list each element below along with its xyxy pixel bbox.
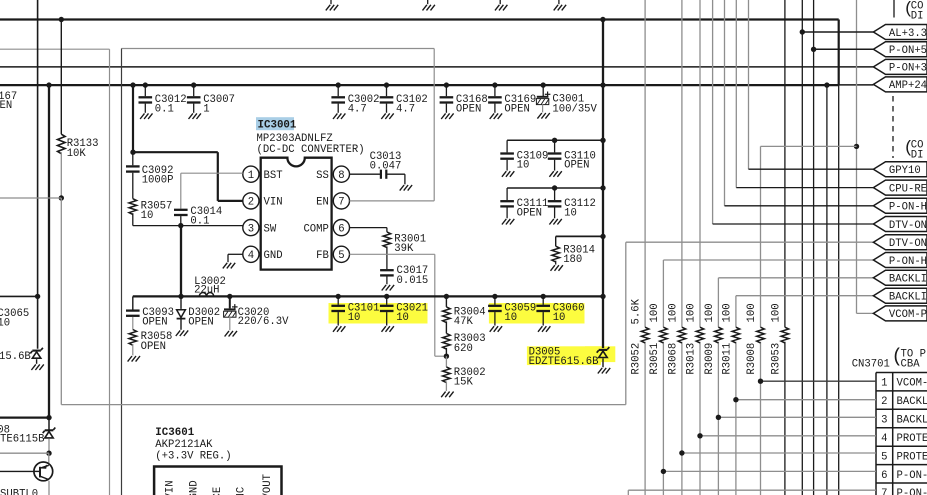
svg-text:EDZTE615.6B: EDZTE615.6B (529, 356, 599, 368)
node dot row4 (697, 433, 702, 438)
svg-text:5: 5 (881, 451, 887, 463)
wire EN vertical (433, 49, 435, 201)
svg-text:AL+3.3V: AL+3.3V (889, 28, 927, 40)
capacitor C3168 OPEN (440, 85, 454, 113)
capacitor C3093 OPEN (132, 296, 134, 309)
wire C3065 y=296 (0, 295, 38, 297)
svg-text:100/35V: 100/35V (552, 103, 597, 115)
svg-text:VCOM-PR: VCOM-PR (889, 309, 927, 321)
svg-text:R3009: R3009 (704, 343, 716, 375)
svg-text:IC3001: IC3001 (258, 120, 297, 132)
wire R3014 link (556, 235, 603, 237)
resistor R3008 100 (757, 327, 765, 343)
capacitor C3017 0.015 (380, 269, 394, 271)
svg-text:GND: GND (188, 480, 200, 495)
pin 8 SS (333, 166, 349, 182)
net flag P-ON-HD (873, 198, 927, 213)
wire P-ON+5 vertical x=813.6 (813, 0, 815, 495)
svg-text:OPEN: OPEN (456, 103, 481, 115)
net flag P-ON+5V (873, 42, 927, 57)
svg-text:6: 6 (338, 223, 344, 235)
wire CPU-RE flag link (736, 187, 873, 189)
wire VCOM-P flag link (857, 312, 874, 314)
svg-text:8: 8 (338, 170, 344, 182)
capacitor C3059 10 (492, 294, 497, 299)
wire bus x=784.9 (R3053 col) (784, 0, 786, 327)
svg-text:22uH: 22uH (194, 285, 219, 297)
svg-text:CE: CE (212, 487, 224, 495)
node dot AL+3.3 (800, 29, 805, 34)
svg-text:CN3701: CN3701 (852, 359, 890, 371)
capacitor C3111 OPEN (500, 188, 514, 218)
resistor R3004 47K (444, 294, 449, 299)
capacitor C3007 1 (187, 85, 201, 113)
svg-text:2: 2 (248, 197, 254, 209)
capacitor C3001 100/35V (electrolytic) (542, 85, 544, 97)
svg-text:620: 620 (454, 343, 473, 355)
wire row5 PROTE (682, 452, 876, 454)
capacitor C3102 4.7 (380, 85, 394, 113)
capacitor C3002 4.7 (331, 85, 345, 113)
wire P-ON+3 rail y=67 (0, 66, 873, 68)
svg-text:PROTEC: PROTEC (897, 433, 927, 445)
svg-text:180: 180 (563, 254, 582, 266)
pin 2 VIN (243, 193, 259, 209)
svg-text:BACKLIG: BACKLIG (889, 292, 927, 304)
node dot C3110 top (552, 138, 557, 143)
capacitor C3169 OPEN (488, 85, 502, 113)
IC3001 highlighted designator (256, 117, 294, 130)
node dot row2/vertical (600, 185, 605, 190)
net flag BACKLIGHT (873, 270, 927, 285)
svg-text:1: 1 (881, 378, 887, 390)
wire drop P-ON-H x=724.5 (724, 0, 726, 206)
svg-text:10: 10 (0, 318, 10, 330)
wire drop CPU-RE x=736.3 (735, 0, 737, 188)
wire row2 BACKL (736, 399, 876, 401)
wire BACKLI flag link (718, 277, 873, 279)
svg-text:P-ON+3.3V: P-ON+3.3V (889, 63, 927, 75)
wire SW drop to output (180, 226, 182, 297)
node dot C3020 (227, 294, 232, 299)
resistor R3009 100 (715, 327, 723, 343)
ground symbols top edge (330, 0, 332, 4)
wire OPEN-net left y=49 (0, 48, 110, 50)
svg-text:R3068: R3068 (667, 343, 679, 375)
pin 6 COMP (333, 220, 349, 236)
net flag DTV-ON 2 (873, 235, 927, 250)
node dot C3007 (191, 82, 196, 87)
svg-text:R3051: R3051 (649, 343, 661, 375)
op-amp U2 IC3601 body (154, 467, 281, 495)
pin 7 EN (333, 193, 349, 209)
svg-text:10: 10 (517, 160, 530, 172)
svg-text:5.6K: 5.6K (631, 298, 643, 324)
wire drop GPY10 x=748.5 (748, 0, 750, 169)
wire GND pin stub (228, 253, 243, 255)
svg-text:0.015: 0.015 (397, 275, 429, 287)
wire VIN feed vertical (132, 85, 134, 152)
svg-text:1: 1 (248, 170, 254, 182)
pin 1 BST (243, 166, 259, 182)
svg-text:OPEN: OPEN (517, 207, 542, 219)
node dot x61.3/y198 (59, 195, 64, 200)
svg-text:VOUT: VOUT (262, 474, 274, 495)
svg-text:10: 10 (348, 312, 361, 324)
wire AMP+24 jog vertical x=838.7 (838, 20, 840, 85)
svg-text:P-ON-HD: P-ON-HD (889, 202, 927, 214)
resistor R3053 100 (781, 327, 789, 343)
wire bus x=760.5 (R3008 col) (760, 146, 762, 327)
resistor R3001 39K (386, 228, 388, 232)
wire vertical x=109.5 (109, 49, 111, 495)
node dot x826.9/y85 (824, 82, 829, 87)
diode D3005 EDZTE615.6B (zener) (597, 347, 610, 357)
svg-text:6: 6 (881, 470, 887, 482)
svg-text:VIN: VIN (165, 480, 177, 495)
wire bus x=718.4 (R3009 col) (717, 278, 719, 327)
svg-text:10: 10 (504, 312, 517, 324)
resistor R3058 OPEN (132, 317, 134, 330)
wire vertical x=37.6 (37, 0, 39, 349)
svg-text:0.1: 0.1 (190, 216, 209, 228)
node dot C3002 (336, 82, 341, 87)
node dot VCOM-P link (854, 144, 859, 149)
svg-text:100: 100 (770, 303, 782, 322)
wire row3 BACKL (718, 416, 876, 418)
wire bus x=700 (R3013 col) (699, 0, 701, 327)
wire P-ON+5 flag link (814, 48, 874, 50)
svg-text:SUBTL0: SUBTL0 (0, 488, 38, 495)
wire row1 VCOM (761, 380, 877, 382)
wire EN pin (350, 200, 435, 202)
svg-text:4: 4 (881, 433, 887, 445)
node dot x49/y453.2 (46, 451, 51, 456)
svg-text:R3008: R3008 (746, 343, 758, 375)
svg-text:P-ON-H: P-ON-H (897, 470, 927, 482)
svg-text:100: 100 (721, 303, 733, 322)
resistor R3014 180 (555, 236, 557, 246)
wire FB pin (350, 253, 435, 255)
resistor R3013 100 (696, 327, 704, 343)
wire SW pin (133, 225, 243, 227)
svg-text:2: 2 (881, 396, 887, 408)
svg-text:1000P: 1000P (142, 174, 174, 186)
svg-text:AMP+24V: AMP+24V (889, 80, 927, 92)
net flag BACKLIGHT 2 (873, 288, 927, 303)
pin 5 FB (333, 246, 349, 262)
net flag P-ON+3.3V (873, 59, 927, 74)
node dot P-ON+5 (811, 47, 816, 52)
node dot C3169 (492, 82, 497, 87)
node dot C3112 top (552, 185, 557, 190)
wire VIN jog (133, 151, 218, 153)
net flag P-ON-HD 2 (873, 253, 927, 268)
svg-text:OPEN: OPEN (142, 316, 167, 328)
svg-text:10K: 10K (67, 148, 87, 160)
node dot row3 (716, 415, 721, 420)
svg-text:CPU-RES: CPU-RES (889, 183, 927, 195)
capacitor C3013 0.047 (380, 170, 382, 179)
svg-text:7: 7 (338, 197, 344, 209)
capacitor C3021 10 (384, 294, 389, 299)
svg-text:COMP: COMP (303, 223, 328, 235)
svg-text:15K: 15K (454, 376, 474, 388)
svg-text:R3052: R3052 (631, 343, 643, 375)
node dot SW/output (178, 294, 183, 299)
highlight C3101/C3021 (yellow) (329, 303, 428, 324)
wire P-ON-H flag link (725, 205, 874, 207)
svg-text:100: 100 (685, 303, 697, 322)
svg-text:BACKLI: BACKLI (897, 396, 927, 408)
svg-text:VIN: VIN (264, 197, 283, 209)
svg-text:DTV-ON: DTV-ON (889, 238, 927, 250)
node dot C3001 (541, 82, 546, 87)
net flag VCOM-PROT (873, 306, 927, 321)
diode D3008 (zener) (48, 418, 50, 430)
svg-text:4.7: 4.7 (348, 103, 367, 115)
net flag CPU-RESET (873, 180, 927, 195)
wire row4 PROTE (700, 435, 876, 437)
wire drop DTV-ON x=712.6 (712, 0, 714, 224)
pin 4 GND (243, 246, 259, 262)
capacitor C3014 0.1 (180, 173, 182, 209)
diode D3002 OPEN (180, 296, 182, 309)
svg-text:3: 3 (881, 415, 887, 427)
wire stub to label x=894 (893, 0, 895, 18)
svg-text:R3013: R3013 (685, 343, 697, 375)
svg-text:OPEN: OPEN (0, 100, 12, 112)
wire AL+3.3 vertical x=802.3 (801, 0, 803, 495)
wire FB vertical (434, 254, 436, 356)
svg-text:EN: EN (316, 197, 329, 209)
svg-text:7: 7 (881, 488, 887, 495)
op-amp U1 IC3001 body (261, 158, 332, 270)
highlight C3059/C3060 (yellow) (489, 303, 585, 324)
svg-text:(+3.3V REG.): (+3.3V REG.) (155, 451, 231, 463)
svg-text:4.7: 4.7 (396, 103, 415, 115)
capacitor C3101 10 (336, 294, 341, 299)
svg-text:IC3601: IC3601 (155, 427, 194, 439)
svg-text:FB: FB (316, 250, 329, 262)
capacitor C3060 10 (541, 294, 546, 299)
net flag AMP+24V (873, 77, 927, 92)
resistor R3002 15K (445, 356, 447, 367)
node dot row/vertical (600, 138, 605, 143)
svg-text:BACKLI: BACKLI (897, 415, 927, 427)
svg-text:4: 4 (248, 250, 254, 262)
resistor R3051 100 (660, 327, 668, 343)
node dot x37.6/y296 (35, 294, 40, 299)
svg-text:DI: DI (911, 11, 924, 23)
wire base y=471.4 (0, 470, 34, 472)
wire output rail y=296.4 (133, 295, 603, 297)
dashed link x=893 (892, 96, 894, 158)
wire EN net top y=48.5 (122, 48, 435, 50)
capacitor C3109 10 (500, 140, 514, 170)
wire VCOM-P link y=146.4 (761, 145, 857, 147)
svg-text:SS: SS (316, 170, 329, 182)
wire bus x=663.4 (R3051 col) (662, 260, 664, 327)
svg-text:100: 100 (649, 303, 661, 322)
node dot x49/y417.6 (46, 415, 51, 420)
node dot FB divider (444, 354, 449, 359)
svg-text:1: 1 (203, 103, 209, 115)
net flag AL+3.3V (873, 25, 927, 40)
svg-text:3: 3 (248, 223, 254, 235)
wire thick left y=417.6 (0, 416, 49, 418)
highlight D3005 label (yellow) (527, 346, 601, 365)
node dot R3014 link (600, 234, 605, 239)
wire DTV-ON2 flag link (626, 241, 874, 243)
node dot C3012 (143, 82, 148, 87)
svg-text:AKP2121AK: AKP2121AK (155, 439, 213, 451)
resistor R3068 100 (678, 327, 686, 343)
wire AL+3.3 flag link (802, 31, 873, 33)
wire big vertical x=603 (602, 20, 604, 349)
node dot x603/y19.5 (600, 17, 605, 22)
wire VCOM-P vertical x=856.5 (856, 0, 858, 313)
wire row7 P-ON (628, 489, 876, 491)
svg-text:100: 100 (746, 303, 758, 322)
node dot row1 (758, 379, 763, 384)
node dot C3014 bottom (178, 223, 183, 228)
wire gray y=198 (0, 197, 61, 199)
net flag GPY10 (873, 162, 927, 177)
svg-text:P-ON+5V: P-ON+5V (889, 45, 927, 57)
svg-text:OPEN: OPEN (188, 316, 213, 328)
svg-text:10: 10 (141, 210, 154, 222)
svg-text:0.1: 0.1 (155, 103, 174, 115)
svg-text:BST: BST (264, 170, 283, 182)
wire thick vertical x=49 (AMP branch) (48, 85, 50, 418)
wire vertical x=121.5 (EN) (121, 49, 123, 495)
svg-text:BACKLIG: BACKLIG (889, 274, 927, 286)
pin 3 SW (243, 220, 259, 236)
wire emitter tail (48, 481, 50, 495)
svg-text:R3011: R3011 (721, 343, 733, 375)
capacitor C3020 220/6.3V (electrolytic) (229, 296, 231, 308)
wire row6 P-ON (663, 470, 876, 472)
node dot VIN feed (130, 82, 135, 87)
wire AMP+24 top rail y=19.5 (0, 18, 839, 20)
svg-text:NC: NC (236, 487, 248, 495)
transistor Q (PNP) (48, 453, 50, 465)
wire bus x=645.1 (R3052 col) (644, 0, 646, 327)
svg-text:100: 100 (704, 303, 716, 322)
resistor R3133 10K (60, 20, 62, 135)
capacitor C3092 1000P (132, 152, 134, 165)
wire DTV-ON2 drop x=625.8 (625, 242, 627, 404)
svg-text:R3053: R3053 (770, 343, 782, 375)
wire BST pin (181, 172, 243, 174)
connector CN3701 table (876, 373, 927, 495)
wire bus x=681.9 (R3068 col) (681, 0, 683, 327)
svg-text:0.047: 0.047 (370, 160, 402, 172)
node dot row2 (733, 397, 738, 402)
svg-text:GND: GND (264, 250, 283, 262)
svg-text:10: 10 (564, 207, 577, 219)
svg-text:47K: 47K (454, 316, 474, 328)
wire DTV-ON flag link (713, 223, 874, 225)
node dot row5 (679, 450, 684, 455)
resistor R3052 5.6K (641, 327, 649, 343)
svg-text:100: 100 (667, 303, 679, 322)
node dot C3092 top (130, 150, 135, 155)
wire bus x=735.9 (R3011 col) (735, 296, 737, 328)
node dot C3102 (384, 82, 389, 87)
svg-text:CBA: CBA (901, 359, 921, 371)
node dot C3168 (444, 82, 449, 87)
svg-text:PROTEC: PROTEC (897, 451, 927, 463)
svg-text:10: 10 (396, 312, 409, 324)
wire gray left y=453.2 (0, 452, 49, 454)
svg-text:DI: DI (911, 150, 924, 162)
svg-text:VCOM-P: VCOM-P (897, 378, 927, 390)
svg-text:OPEN: OPEN (504, 103, 529, 115)
svg-text:220/6.3V: 220/6.3V (238, 316, 290, 328)
wire long gray net y=404.6 (61, 404, 626, 406)
net flag DTV-ON (873, 217, 927, 232)
node dot x603/y85 (600, 82, 605, 87)
capacitor C3012 0.1 (139, 85, 153, 113)
svg-text:15.6B: 15.6B (0, 351, 31, 363)
wire COMP pin (350, 227, 387, 229)
svg-text:(DC-DC CONVERTER): (DC-DC CONVERTER) (257, 144, 365, 156)
resistor R3011 100 (732, 327, 740, 343)
svg-text:OPEN: OPEN (141, 341, 166, 353)
diode zener EDZTE615.6B (30, 348, 43, 358)
node dot row6 (661, 469, 666, 474)
svg-text:5: 5 (338, 250, 344, 262)
node dot x603/y296 (600, 294, 605, 299)
svg-text:GPY10: GPY10 (889, 165, 921, 177)
wire P-ON-H2 flag link (663, 259, 873, 261)
wire gray x=61.3 down (60, 198, 62, 405)
wire main +24V rail y=85 (0, 84, 839, 86)
capacitor C3110 OPEN (548, 140, 562, 170)
wire BACKLI2 flag link (736, 295, 874, 297)
wire GPY10 flag link (749, 168, 874, 170)
wire C3111 row (507, 187, 603, 189)
wire SS to C3013 (350, 173, 381, 175)
svg-text:DTV-ON: DTV-ON (889, 220, 927, 232)
svg-text:10: 10 (553, 312, 566, 324)
wire C3109 row (507, 139, 603, 141)
svg-text:39K: 39K (394, 243, 414, 255)
wire vertical x=826.9 (826, 85, 828, 495)
svg-text:TE6115B: TE6115B (0, 433, 45, 445)
wire AMP+24 flag link (839, 84, 874, 86)
resistor R3003 620 (445, 321, 447, 333)
svg-text:P-ON-HD: P-ON-HD (889, 256, 927, 268)
capacitor C3112 10 (548, 188, 562, 218)
svg-text:OPEN: OPEN (564, 160, 589, 172)
resistor R3057 10 (132, 173, 134, 199)
svg-text:P-ON-H: P-ON-H (897, 488, 927, 495)
inductor L3002 22uH (199, 292, 213, 296)
svg-text:SW: SW (264, 223, 277, 235)
